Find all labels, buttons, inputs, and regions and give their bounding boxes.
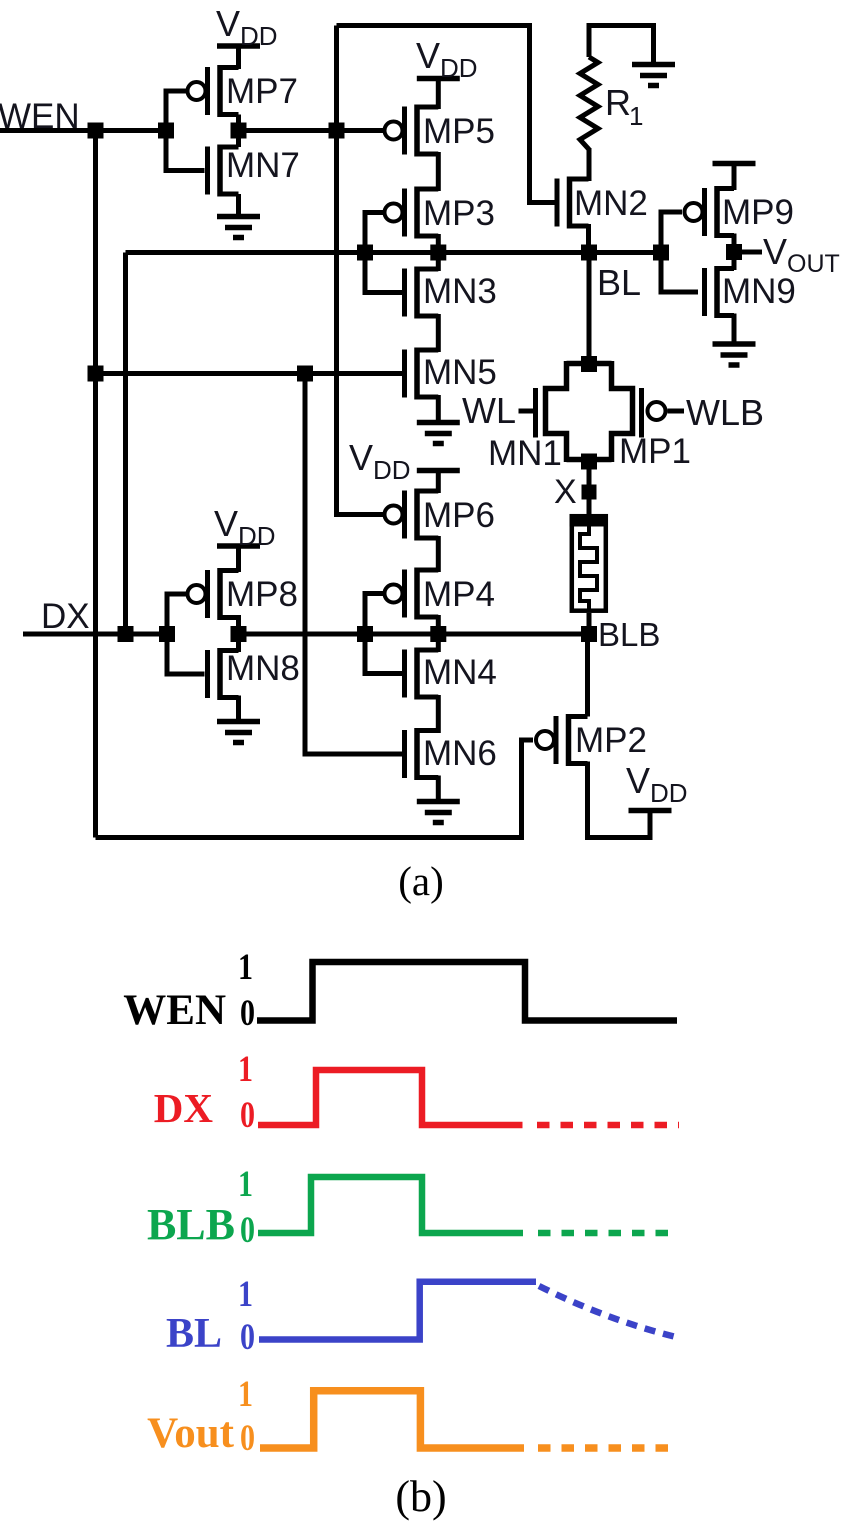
svg-text:MP4: MP4	[423, 575, 495, 614]
wire MN8 source to ground	[236, 696, 241, 722]
wire BL row horizontal	[126, 250, 662, 255]
node inverter U7 gate feed	[158, 123, 174, 139]
svg-text:1: 1	[629, 101, 643, 131]
net label BLB	[598, 616, 660, 653]
wire MN8 drain to output node	[236, 634, 241, 652]
transistor MP9	[685, 186, 794, 238]
resistor R1	[580, 57, 643, 149]
wire memristor to BLB node	[587, 613, 592, 634]
wire MN3 source to MN5 drain	[436, 314, 441, 352]
svg-text:1: 1	[238, 947, 253, 988]
svg-text:BLB: BLB	[147, 1200, 235, 1249]
wire MP7 drain to VDD	[236, 46, 241, 69]
svg-text:WEN: WEN	[0, 97, 80, 136]
wire gate feed of MP3/MN3	[365, 213, 402, 293]
node BLB	[581, 626, 597, 642]
power VDD bar of MP7	[217, 43, 260, 49]
wire transmission gate to memristor via node X	[587, 460, 592, 515]
svg-text:MP8: MP8	[226, 575, 298, 614]
wire MP6 source to MP4 drain	[436, 536, 441, 572]
svg-text:WEN: WEN	[123, 987, 226, 1034]
node inverter U7 output	[231, 123, 247, 139]
transistor MP6	[385, 489, 495, 541]
power VDD bar of MP9	[713, 161, 756, 167]
waveform DX (red)	[154, 1049, 679, 1136]
wire gate feed of MP4/MN4	[365, 594, 402, 674]
transistor MN8	[208, 648, 300, 700]
memristor M1 between X and BLB	[570, 514, 609, 611]
wire vertical from BL row down to DX row	[123, 253, 128, 635]
wire MP8 drain to VDD	[236, 546, 241, 572]
transistor MP3	[385, 187, 495, 239]
transistor MN3	[405, 267, 497, 319]
transistor MP8	[188, 568, 298, 620]
transistor MN1 gate bar	[533, 388, 538, 438]
svg-text:BLB: BLB	[598, 616, 660, 653]
wire MP3 source to BL-row node	[436, 234, 441, 253]
svg-text:MP2: MP2	[575, 721, 647, 760]
wire MP9 source to Vout node	[732, 234, 737, 271]
svg-text:MN6: MN6	[423, 734, 497, 773]
wire inverter U7 output to MP5 gate	[239, 128, 385, 133]
svg-text:DX: DX	[41, 597, 90, 636]
label MP1	[619, 432, 691, 471]
svg-text:WL: WL	[462, 390, 516, 431]
net label DX	[41, 597, 90, 636]
wire MP4 source to DX-row node	[436, 615, 441, 634]
pin WLB lead	[668, 409, 685, 414]
net label BL	[597, 262, 641, 303]
pin WL lead	[519, 409, 534, 414]
wire MN5 source to ground	[436, 395, 441, 423]
wire DX row horizontal	[23, 632, 167, 637]
wire MP9 drain to VDD bar	[732, 164, 737, 191]
svg-text:0: 0	[240, 993, 255, 1034]
svg-text:MN1: MN1	[488, 434, 562, 473]
power label VDD (MP8)	[214, 503, 276, 551]
node MP9/MN9 gate feed	[653, 245, 669, 261]
svg-text:1: 1	[238, 1049, 253, 1090]
wire MN2 drain up to resistor R1	[587, 148, 592, 181]
node Vout output	[726, 244, 742, 260]
node inverter U8 gate feed	[159, 626, 175, 642]
label MN1	[488, 434, 562, 473]
svg-text:MP3: MP3	[423, 194, 495, 233]
node WEN junction	[88, 123, 104, 139]
wire MP5 source to MP3 drain	[436, 152, 441, 191]
transistor MN5	[405, 348, 497, 400]
waveform Vout (orange)	[147, 1374, 677, 1459]
svg-text:0: 0	[240, 1095, 255, 1136]
power VDD bar of MP6	[417, 468, 460, 474]
node inverter U8 output	[231, 626, 247, 642]
net label WEN	[0, 97, 80, 136]
node MN5 gate row mid junction	[297, 366, 313, 382]
svg-text:MN4: MN4	[423, 653, 497, 692]
ground below MN9	[713, 344, 756, 365]
transistor MN6	[405, 728, 497, 780]
caption (b)	[395, 1472, 446, 1521]
wire vertical to MP6 gate	[337, 26, 385, 515]
node MP3/MN3 gate feed	[357, 245, 373, 261]
svg-text:Vout: Vout	[147, 1410, 235, 1457]
net label WL	[462, 390, 516, 431]
wire gate feed of inverter MP7/MN7	[166, 91, 205, 171]
wire BLB node down to MP2 drain	[585, 634, 590, 717]
wire BL vertical from BL node to transmission gate	[587, 253, 592, 365]
svg-text:MN7: MN7	[226, 146, 300, 185]
waveform BLB (green)	[147, 1164, 679, 1251]
wire MN9 source to ground	[732, 314, 737, 345]
power VDD bar of MP2	[629, 808, 672, 814]
power VDD bar of MP8	[217, 543, 260, 549]
wire gate feed of inverter MP9/MN9	[661, 212, 698, 292]
wire Vout stub	[734, 250, 762, 255]
power label VDD (MP2)	[626, 760, 688, 808]
svg-text:MP5: MP5	[423, 112, 495, 151]
svg-text:DX: DX	[154, 1085, 214, 1131]
wire MP2 source to VDD	[588, 762, 651, 838]
wire MN4 drain to DX-row node	[436, 634, 441, 652]
transistor MP4	[385, 568, 495, 620]
svg-text:MP9: MP9	[722, 193, 794, 232]
net label VOUT	[763, 231, 840, 278]
svg-text:MN3: MN3	[423, 272, 497, 311]
svg-text:MN9: MN9	[722, 272, 796, 311]
transistor MP1 gate bar	[639, 388, 644, 438]
waveform BL (blue)	[166, 1274, 676, 1358]
wire MN6 source to ground	[436, 776, 441, 802]
node MP4/MN4 gate feed	[357, 626, 373, 642]
svg-text:WLB: WLB	[686, 392, 764, 433]
node transmission gate bottom	[581, 454, 597, 470]
transistor MP7	[188, 65, 298, 117]
svg-text:MP1: MP1	[619, 432, 691, 471]
svg-text:MP7: MP7	[226, 72, 298, 111]
wire MN3 drain to BL-row node	[436, 253, 441, 272]
transistor MP5	[385, 105, 495, 157]
wire top rail to MN2 gate	[337, 26, 555, 203]
wire MN2 source down to BL node	[586, 224, 591, 253]
svg-text:MP6: MP6	[423, 496, 495, 535]
svg-text:0: 0	[240, 1210, 255, 1251]
wire MP8 output along DX row to BLB	[239, 632, 590, 637]
node X	[582, 485, 597, 500]
node transmission gate top	[581, 356, 597, 372]
transistor MP2	[536, 714, 647, 766]
svg-text:MN5: MN5	[423, 353, 497, 392]
transistor MN7	[208, 145, 300, 197]
svg-text:BL: BL	[166, 1311, 222, 1357]
wire MP8 source to output node	[236, 615, 241, 634]
svg-text:MN8: MN8	[226, 649, 300, 688]
bubble on MP1 gate	[648, 402, 666, 420]
transistor MN4	[405, 648, 497, 700]
node MP4/MN4 output on DX row	[430, 626, 446, 642]
svg-text:(a): (a)	[398, 858, 444, 904]
wire MN4 source to MN6 drain	[436, 695, 441, 733]
svg-text:R: R	[605, 82, 631, 123]
net label WLB	[686, 392, 764, 433]
wire MP5 drain to VDD	[436, 79, 441, 110]
power label VDD (MP6)	[349, 437, 411, 485]
node BL	[581, 245, 597, 261]
svg-text:1: 1	[238, 1274, 253, 1315]
svg-text:1: 1	[238, 1164, 253, 1205]
svg-text:X: X	[554, 473, 577, 511]
power label VDD (MP5)	[416, 35, 478, 83]
transistor MN2	[557, 177, 648, 229]
node MP3/MN3 output on BL row	[430, 245, 446, 261]
ground below MN8	[217, 722, 260, 743]
svg-text:1: 1	[238, 1374, 253, 1415]
svg-text:BL: BL	[597, 262, 641, 303]
wire MP7 source to output node	[236, 115, 241, 148]
transistor MN9	[705, 266, 796, 318]
wire MP6 drain to VDD	[436, 471, 441, 494]
node MP5 gate wire junction	[329, 123, 345, 139]
ground at R1 top	[632, 65, 675, 86]
svg-text:(b): (b)	[395, 1472, 446, 1521]
power label VDD (MP7)	[216, 3, 278, 51]
wire WEN input to inverter U7 gates	[0, 128, 166, 133]
wire vertical WEN rail down to bottom rail	[93, 131, 98, 838]
wire R1 top lead to ground bracket	[589, 26, 654, 65]
power VDD bar of MP5	[417, 76, 460, 82]
node DX junction 1	[118, 626, 134, 642]
wire MN5 gate row horizontal	[96, 371, 405, 376]
waveform WEN (black)	[123, 947, 677, 1034]
wire MN7 source to ground	[236, 194, 241, 217]
wire gate feed of inverter MP8/MN8	[167, 594, 205, 674]
wire vertical to MN6 gate	[305, 374, 405, 755]
transmission gate MN1/MP1 body	[546, 361, 633, 462]
ground below MN6	[417, 802, 460, 823]
ground below MN5	[417, 423, 460, 444]
wire bottom rail to MP2 gate	[96, 740, 534, 838]
svg-text:0: 0	[240, 1418, 255, 1459]
svg-text:0: 0	[240, 1317, 255, 1358]
net label X	[554, 473, 577, 511]
svg-text:MN2: MN2	[574, 184, 648, 223]
ground below MN7	[217, 217, 260, 238]
node MN5 gate row left junction	[88, 366, 104, 382]
caption (a)	[398, 858, 444, 904]
